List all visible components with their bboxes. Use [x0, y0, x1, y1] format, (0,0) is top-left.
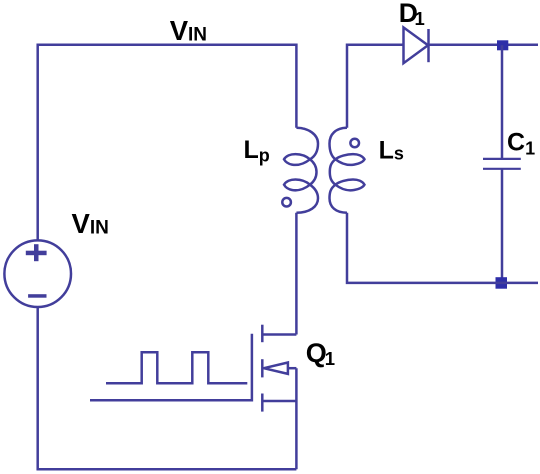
mosfet Q1 drain stub: [262, 333, 296, 336]
mosfet Q1 gate line: [90, 334, 252, 401]
mosfet Q1 source stub: [262, 400, 296, 403]
wire right rail upper: [501, 45, 504, 159]
junction node bottom right: [496, 277, 508, 289]
wire source bottom to bottom rail: [38, 307, 297, 469]
wire mosfet source to bottom rail: [295, 368, 298, 469]
voltage source V1 circle: [4, 240, 71, 307]
junction node top right: [497, 40, 508, 50]
wire diode cathode to output: [429, 44, 539, 47]
transformer primary Lp coil: [284, 128, 318, 213]
transformer secondary Ls coil: [330, 128, 365, 213]
diode D1 cathode bar: [427, 29, 430, 62]
diode D1 triangle: [404, 27, 429, 63]
wire right rail lower: [501, 169, 504, 283]
minus sign: [28, 294, 46, 298]
mosfet Q1 channel middle segment: [261, 359, 264, 377]
wire primary to drain: [295, 213, 298, 335]
gate pulse waveform: [106, 352, 247, 383]
plus sign: [26, 244, 47, 261]
svg-text:Lp: Lp: [244, 136, 270, 165]
svg-text:D1: D1: [399, 0, 425, 29]
svg-text:VIN: VIN: [170, 15, 207, 46]
capacitor C1 bottom plate: [483, 168, 521, 170]
svg-text:C1: C1: [507, 128, 535, 158]
primary phase dot: [282, 198, 291, 207]
capacitor C1 top plate: [483, 158, 521, 160]
svg-text:Q1: Q1: [306, 338, 335, 369]
wire secondary bottom rail: [347, 213, 538, 283]
wire top rail and left rail: [38, 45, 297, 241]
mosfet Q1 body arrow: [264, 363, 288, 374]
mosfet Q1 channel bottom segment: [261, 394, 264, 412]
secondary phase dot: [350, 139, 359, 148]
svg-text:VIN: VIN: [72, 208, 109, 239]
mosfet Q1 channel top segment: [261, 325, 264, 343]
wire secondary top to diode anode: [347, 45, 404, 128]
svg-text:Ls: Ls: [379, 137, 404, 165]
mosfet Q1 body wire: [288, 367, 297, 370]
